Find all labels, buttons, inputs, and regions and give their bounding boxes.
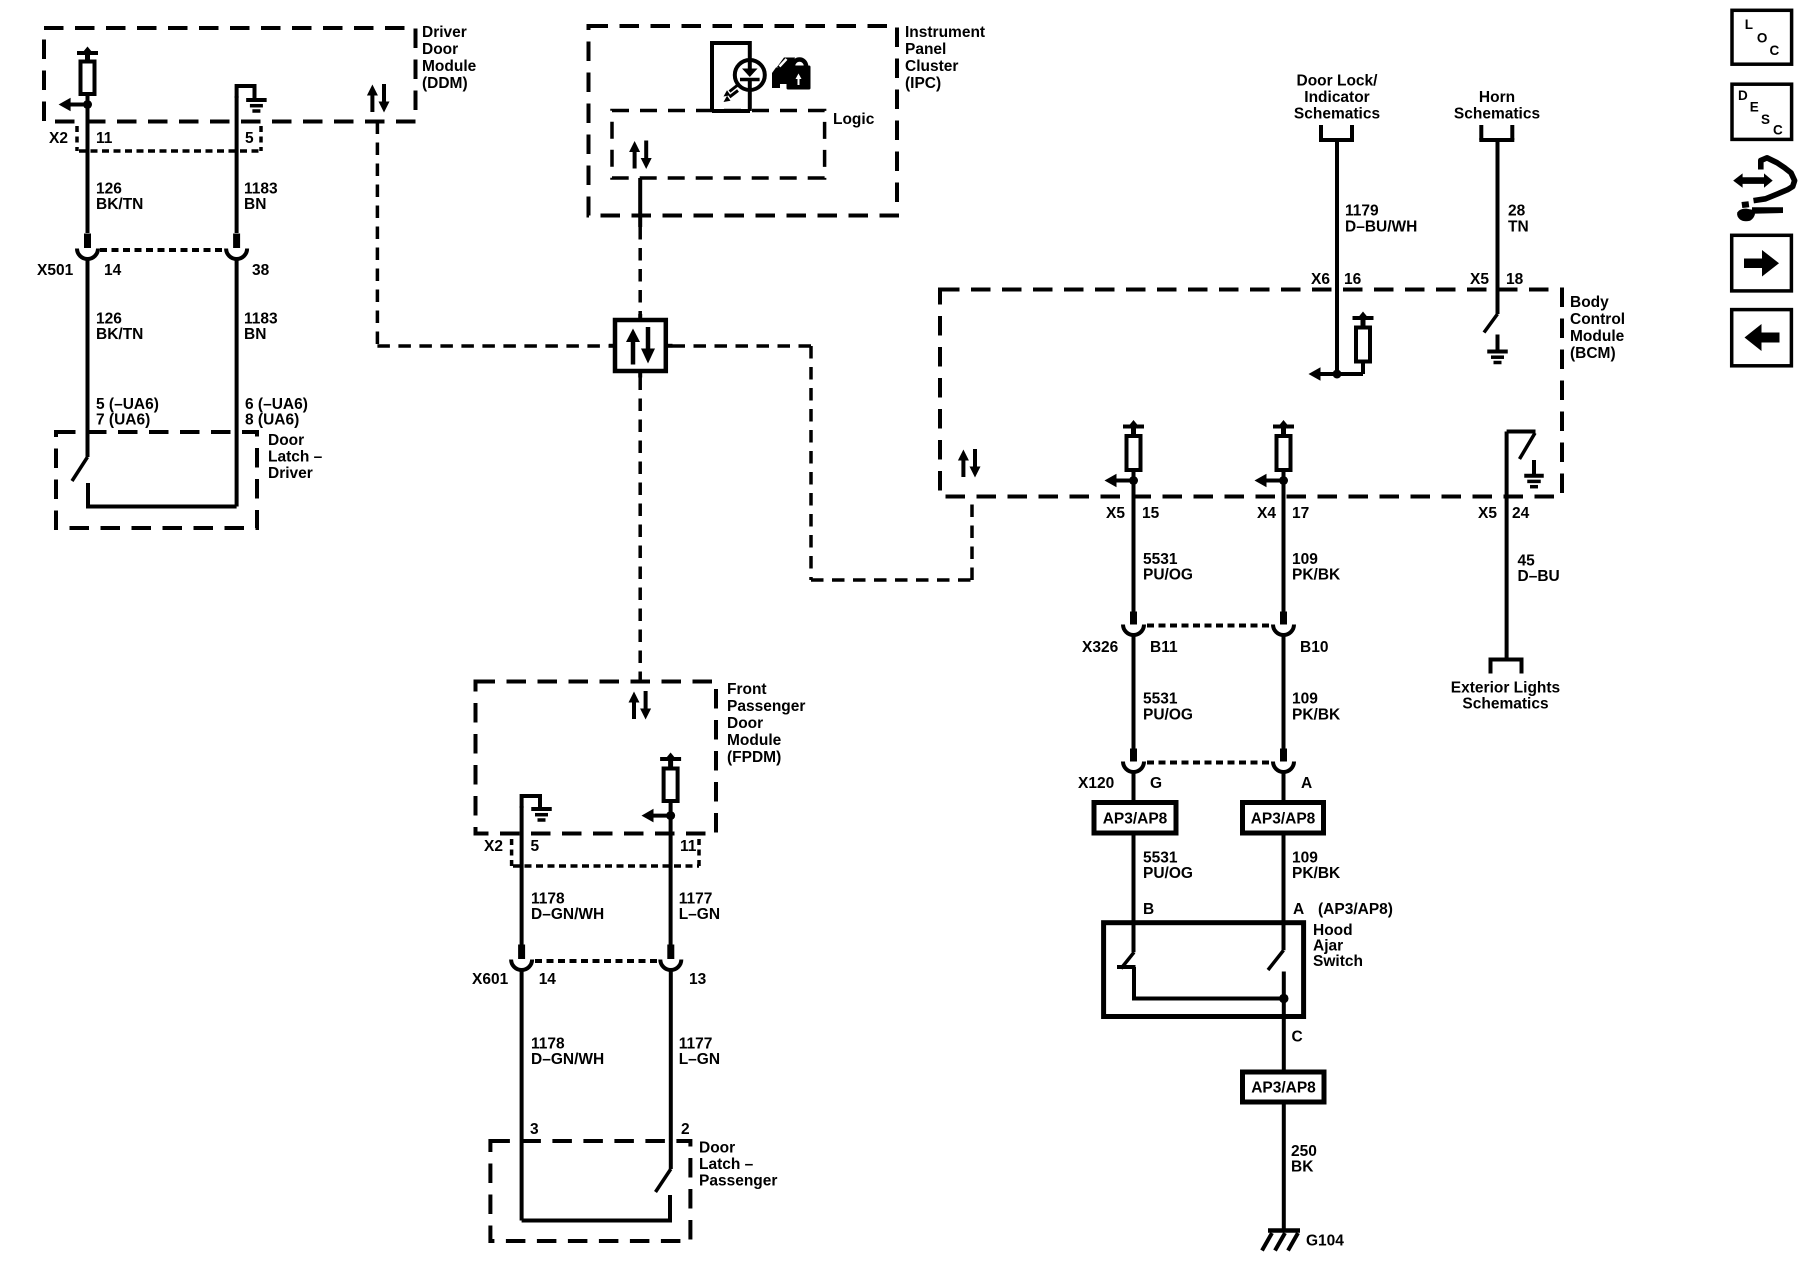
wire label 1178 D-GN/WH (upper)	[531, 891, 604, 924]
sidebar button back arrow	[1732, 310, 1792, 366]
svg-text:B11: B11	[1150, 639, 1178, 656]
component box Door Latch - Passenger	[490, 1140, 777, 1242]
svg-text:Latch –: Latch –	[699, 1156, 754, 1173]
svg-text:X120: X120	[1078, 775, 1114, 792]
wire 1183 BN to door latch driver	[235, 257, 239, 507]
svg-text:Driver: Driver	[268, 465, 313, 482]
pin X5 24 (BCM bottom)	[1478, 505, 1530, 522]
pull-up resistor at BCM X4-17	[1273, 420, 1294, 481]
svg-text:X4: X4	[1257, 505, 1276, 522]
wire label 1177 L-GN (upper)	[679, 891, 720, 924]
wire C from hood switch	[1282, 999, 1286, 1073]
junction on wire 1179	[1333, 370, 1342, 379]
svg-text:109: 109	[1292, 551, 1318, 568]
svg-text:Passenger: Passenger	[727, 698, 805, 715]
svg-text:7 (UA6): 7 (UA6)	[96, 412, 150, 429]
wire label 45 D-BU	[1518, 553, 1560, 586]
fuse label box AP3/AP8 right	[1243, 803, 1324, 834]
wire to fuse label left	[1132, 770, 1136, 803]
wire 126 BK/TN from DDM pin 11	[86, 105, 90, 234]
svg-text:D–GN/WH: D–GN/WH	[531, 1051, 604, 1068]
svg-text:E: E	[1750, 100, 1759, 115]
wire label 1183 BN (lower)	[244, 311, 278, 344]
connector X120 left half G	[1078, 749, 1162, 793]
svg-text:13: 13	[689, 971, 707, 988]
svg-text:16: 16	[1344, 271, 1362, 288]
junction at BCM X5-15	[1129, 476, 1138, 485]
svg-text:Module: Module	[422, 58, 477, 75]
module box IPC (Instrument Panel Cluster)	[589, 24, 986, 216]
svg-text:D–BU/WH: D–BU/WH	[1345, 219, 1417, 236]
pin 2 label (passenger latch)	[681, 1121, 690, 1138]
signal arrow left inside FPDM	[642, 809, 671, 823]
connector X501 left half	[37, 234, 122, 280]
off-page connector Horn Schematics	[1454, 89, 1540, 140]
LED emission arrows	[724, 84, 740, 102]
connector X326 right half B10	[1273, 612, 1328, 657]
wire 1183 BN from DDM pin 5	[235, 96, 239, 233]
component box Door Latch - Driver	[56, 432, 323, 528]
svg-text:BK/TN: BK/TN	[96, 326, 143, 343]
svg-text:1178: 1178	[531, 1036, 565, 1053]
connector X326 dashed pairing line	[1147, 624, 1270, 628]
svg-text:Ajar: Ajar	[1313, 938, 1343, 955]
pin X5 15 (BCM bottom)	[1106, 505, 1160, 522]
LED circle	[735, 60, 765, 90]
hood switch B contact and link	[1117, 967, 1284, 999]
svg-text:S: S	[1761, 112, 1770, 127]
svg-text:5531: 5531	[1143, 850, 1178, 867]
svg-text:X5: X5	[1106, 505, 1125, 522]
connector X501 dashed pairing line	[100, 248, 224, 252]
svg-text:14: 14	[539, 971, 557, 988]
indicator LED loop wire	[712, 43, 750, 111]
pin X5 18 (BCM)	[1470, 271, 1524, 288]
pin 11 label (DDM X2)	[96, 130, 113, 147]
svg-text:X2: X2	[484, 838, 503, 855]
wire label 126 BK/TN (upper)	[96, 181, 143, 214]
svg-text:Horn: Horn	[1479, 89, 1515, 106]
svg-text:1178: 1178	[531, 891, 565, 908]
serial data dashed wire to BCM	[673, 346, 973, 580]
svg-text:PK/BK: PK/BK	[1292, 707, 1341, 724]
svg-text:D–GN/WH: D–GN/WH	[531, 906, 604, 923]
serial data link box with arrows	[609, 314, 673, 378]
svg-text:45: 45	[1518, 553, 1536, 570]
svg-text:X5: X5	[1478, 505, 1497, 522]
module box DDM (Driver Door Module)	[44, 24, 477, 122]
svg-text:Latch –: Latch –	[268, 449, 323, 466]
wire 1177 L-GN from FPDM pin 11	[669, 816, 673, 945]
svg-text:BK/TN: BK/TN	[96, 196, 143, 213]
resistor with B+ supply inside DDM	[77, 47, 98, 105]
svg-text:(IPC): (IPC)	[905, 75, 941, 92]
horn switch inside BCM	[1484, 314, 1498, 333]
resistor with B+ supply inside FPDM	[660, 753, 681, 816]
svg-text:X601: X601	[472, 971, 509, 988]
serial data dashed wire to FPDM	[638, 378, 642, 682]
ground symbol at BCM X5-24 switch	[1524, 460, 1544, 487]
signal arrow left at X4-17	[1255, 474, 1284, 488]
wire 28 TN	[1496, 140, 1500, 314]
wire label 5531 PU/OG (lower)	[1143, 850, 1193, 883]
svg-text:3: 3	[530, 1121, 539, 1138]
svg-text:38: 38	[252, 262, 270, 279]
pin label 5/7 (UA6)	[96, 396, 159, 429]
connector X120 dashed pairing line	[1147, 761, 1270, 765]
svg-text:Door: Door	[699, 1140, 735, 1157]
svg-text:1183: 1183	[244, 311, 278, 328]
svg-text:C: C	[1773, 123, 1783, 138]
pin label 6/8 (UA6)	[245, 396, 308, 429]
svg-text:TN: TN	[1508, 219, 1529, 236]
svg-text:PK/BK: PK/BK	[1292, 567, 1341, 584]
svg-text:8 (UA6): 8 (UA6)	[245, 412, 299, 429]
wire label 250 BK	[1291, 1143, 1317, 1176]
svg-text:126: 126	[96, 181, 122, 198]
svg-text:B10: B10	[1300, 639, 1328, 656]
svg-text:Indicator: Indicator	[1304, 89, 1369, 106]
component box Hood Ajar Switch	[1104, 922, 1363, 1017]
svg-text:PU/OG: PU/OG	[1143, 865, 1193, 882]
wire label 109 PK/BK (upper)	[1292, 551, 1341, 584]
pin 5 label (FPDM X2)	[531, 838, 540, 855]
node junction below DDM resistor	[83, 100, 92, 109]
svg-text:Schematics: Schematics	[1454, 106, 1540, 123]
svg-text:5531: 5531	[1143, 551, 1178, 568]
sidebar button LOC	[1732, 10, 1792, 64]
connector X326 left half B11	[1082, 612, 1178, 657]
wire 1178 D-GN/WH to passenger latch	[520, 968, 524, 1221]
svg-text:Schematics: Schematics	[1462, 696, 1548, 713]
wire label 1179 D-BU/WH	[1345, 203, 1417, 236]
svg-text:L–GN: L–GN	[679, 1051, 720, 1068]
wire 1179 D-BU/WH	[1335, 140, 1339, 374]
sidebar button DESC	[1732, 84, 1792, 139]
svg-text:Instrument: Instrument	[905, 24, 985, 41]
security indicator icon (car with padlock)	[772, 58, 811, 90]
logic sub-box inside IPC	[612, 111, 875, 179]
fuse label box AP3/AP8 left	[1094, 803, 1176, 834]
svg-text:Driver: Driver	[422, 24, 467, 41]
svg-text:Panel: Panel	[905, 41, 946, 58]
svg-text:1177: 1177	[679, 1036, 713, 1053]
svg-text:Hood: Hood	[1313, 922, 1353, 939]
svg-text:Door Lock/: Door Lock/	[1297, 73, 1379, 90]
terminal label C	[1292, 1029, 1303, 1046]
wire label 28 TN	[1508, 203, 1529, 236]
wire label 1183 BN (upper)	[244, 181, 278, 214]
signal arrow left on 1179	[1309, 367, 1338, 381]
wire 126 BK/TN to door latch driver	[86, 257, 90, 457]
svg-text:1177: 1177	[679, 891, 713, 908]
serial data dashed wire IPC to data link box	[638, 227, 642, 314]
junction below FPDM resistor	[666, 811, 675, 820]
svg-text:Logic: Logic	[833, 111, 875, 128]
wire label 5531 PU/OG (middle)	[1143, 691, 1193, 724]
svg-text:Cluster: Cluster	[905, 58, 958, 75]
junction at hood switch C	[1279, 994, 1288, 1003]
serial data arrows inside BCM	[958, 449, 981, 478]
svg-text:D–BU: D–BU	[1518, 568, 1560, 585]
svg-text:11: 11	[680, 838, 697, 855]
svg-text:AP3/AP8: AP3/AP8	[1251, 1080, 1316, 1097]
off-page connector Door Lock/Indicator Schematics	[1294, 73, 1380, 141]
svg-text:250: 250	[1291, 1143, 1317, 1160]
wire 109 PK/BK (middle)	[1282, 633, 1286, 749]
svg-text:Schematics: Schematics	[1294, 106, 1380, 123]
svg-text:Door: Door	[268, 432, 304, 449]
off-page connector Exterior Lights Schematics	[1451, 660, 1560, 713]
svg-text:C: C	[1770, 43, 1780, 58]
svg-text:2: 2	[681, 1121, 690, 1138]
svg-text:5 (–UA6): 5 (–UA6)	[96, 396, 159, 413]
serial data dashed wire DDM branch	[377, 122, 608, 347]
ground symbol inside DDM	[237, 84, 267, 111]
svg-text:18: 18	[1506, 271, 1524, 288]
svg-text:C: C	[1292, 1029, 1303, 1046]
svg-text:X6: X6	[1311, 271, 1330, 288]
connector X601 left half	[472, 945, 556, 989]
wire 5531 PU/OG from X5-15	[1132, 481, 1136, 612]
wire 5531 PU/OG to hood switch B	[1132, 833, 1136, 952]
svg-text:5531: 5531	[1143, 691, 1178, 708]
pull-up resistor at BCM X5-15	[1123, 420, 1144, 481]
svg-text:5: 5	[245, 130, 254, 147]
svg-text:11: 11	[96, 130, 113, 147]
connector X601 dashed pairing line	[535, 959, 658, 963]
module box FPDM (Front Passenger Door Module)	[476, 681, 806, 834]
svg-text:X2: X2	[49, 130, 68, 147]
wire label 5531 PU/OG (upper)	[1143, 551, 1193, 584]
svg-text:14: 14	[104, 262, 122, 279]
svg-text:AP3/AP8: AP3/AP8	[1251, 811, 1316, 828]
svg-text:X5: X5	[1470, 271, 1489, 288]
pin 3 label (passenger latch)	[530, 1121, 539, 1138]
svg-text:(DDM): (DDM)	[422, 75, 468, 92]
svg-text:Module: Module	[1570, 328, 1625, 345]
svg-text:B: B	[1143, 901, 1154, 918]
wire label 1178 D-GN/WH (lower)	[531, 1036, 604, 1069]
svg-text:Switch: Switch	[1313, 953, 1363, 970]
svg-text:126: 126	[96, 311, 122, 328]
wire 45 D-BU from X5-24	[1505, 497, 1509, 659]
svg-text:X501: X501	[37, 262, 74, 279]
svg-text:A: A	[1301, 775, 1312, 792]
svg-text:O: O	[1757, 31, 1768, 46]
svg-text:28: 28	[1508, 203, 1526, 220]
terminal label B	[1143, 901, 1154, 918]
connector X601 right half	[660, 945, 706, 989]
serial data arrows inside FPDM	[629, 691, 652, 720]
svg-text:X326: X326	[1082, 639, 1119, 656]
svg-text:BN: BN	[244, 326, 266, 343]
svg-text:G104: G104	[1306, 1233, 1344, 1250]
sidebar button next arrow	[1732, 235, 1792, 291]
switch contact and link wire in driver door latch	[88, 483, 237, 507]
svg-text:Door: Door	[422, 41, 458, 58]
LED diode symbol	[740, 60, 760, 90]
svg-text:G: G	[1150, 775, 1162, 792]
wire label 1177 L-GN (lower)	[679, 1036, 720, 1069]
sidebar icon wiring pigtail with double arrow	[1733, 158, 1794, 201]
pin 5 label (DDM X2)	[245, 130, 254, 147]
terminal label A (AP3/AP8)	[1293, 901, 1393, 918]
svg-text:L–GN: L–GN	[679, 906, 720, 923]
module box BCM (Body Control Module)	[940, 290, 1625, 497]
svg-text:Control: Control	[1570, 311, 1625, 328]
ground symbol inside FPDM	[522, 794, 552, 820]
signal arrow left inside DDM	[59, 98, 88, 112]
svg-text:Module: Module	[727, 732, 782, 749]
connector X501 right half	[226, 234, 270, 280]
svg-text:BN: BN	[244, 196, 266, 213]
svg-text:(BCM): (BCM)	[1570, 345, 1616, 362]
svg-text:Door: Door	[727, 715, 763, 732]
wire label 109 PK/BK (lower)	[1292, 850, 1341, 883]
svg-text:BK: BK	[1291, 1159, 1314, 1176]
svg-text:(AP3/AP8): (AP3/AP8)	[1318, 901, 1393, 918]
wire 5531 PU/OG (middle)	[1132, 633, 1136, 749]
pull-up resistor on 1179 inside BCM	[1337, 312, 1374, 375]
svg-text:PK/BK: PK/BK	[1292, 865, 1341, 882]
sidebar icon wrench	[1737, 201, 1783, 221]
serial data arrows inside DDM	[367, 84, 390, 113]
svg-text:Exterior Lights: Exterior Lights	[1451, 680, 1560, 697]
svg-text:109: 109	[1292, 850, 1318, 867]
wire 1177 L-GN to passenger latch	[669, 968, 673, 1169]
hood switch blade B	[1121, 952, 1134, 968]
wire from logic box to IPC edge	[638, 178, 642, 227]
wire to fuse label right	[1282, 770, 1286, 803]
svg-text:24: 24	[1512, 505, 1530, 522]
svg-text:Body: Body	[1570, 294, 1609, 311]
svg-text:109: 109	[1292, 691, 1318, 708]
pin X6 16 (BCM)	[1311, 271, 1362, 288]
svg-text:1183: 1183	[244, 181, 278, 198]
connector X2 (DDM)	[49, 126, 261, 151]
svg-text:Passenger: Passenger	[699, 1173, 777, 1190]
svg-text:L: L	[1745, 17, 1753, 32]
hood switch blade A	[1268, 950, 1284, 970]
ground symbol below horn switch	[1487, 335, 1508, 363]
switch to ground at BCM X5-24	[1507, 432, 1536, 497]
wire label 109 PK/BK (middle)	[1292, 691, 1341, 724]
svg-text:(FPDM): (FPDM)	[727, 749, 781, 766]
chassis ground G104	[1262, 1231, 1344, 1251]
connector X120 right half A	[1273, 749, 1312, 793]
wire 109 PK/BK from X4-17	[1282, 481, 1286, 612]
svg-text:Front: Front	[727, 681, 767, 698]
wire 109 PK/BK to hood switch A	[1282, 833, 1286, 950]
wire 250 BK	[1282, 1102, 1286, 1230]
junction at BCM X4-17	[1279, 476, 1288, 485]
pin X4 17 (BCM bottom)	[1257, 505, 1309, 522]
switch contact and link wire in passenger door latch	[522, 1195, 670, 1221]
wire label 126 BK/TN (lower)	[96, 311, 143, 344]
connector X2 (FPDM)	[484, 838, 699, 866]
hood switch A contact	[1282, 972, 1286, 999]
serial data arrows inside logic box	[629, 141, 652, 170]
svg-text:PU/OG: PU/OG	[1143, 707, 1193, 724]
pin 11 label (FPDM X2)	[680, 838, 697, 855]
svg-text:PU/OG: PU/OG	[1143, 567, 1193, 584]
fuse label box AP3/AP8 lower	[1243, 1072, 1325, 1102]
svg-text:D: D	[1738, 88, 1748, 103]
svg-text:15: 15	[1142, 505, 1160, 522]
svg-text:6 (–UA6): 6 (–UA6)	[245, 396, 308, 413]
switch blade in passenger door latch	[656, 1169, 671, 1192]
signal arrow left at X5-15	[1105, 474, 1134, 488]
svg-text:17: 17	[1292, 505, 1309, 522]
wire 1178 D-GN/WH from FPDM pin 5	[520, 806, 524, 945]
svg-text:AP3/AP8: AP3/AP8	[1103, 811, 1168, 828]
svg-text:1179: 1179	[1345, 203, 1379, 220]
svg-text:A: A	[1293, 901, 1304, 918]
switch blade in driver door latch	[72, 457, 88, 481]
svg-text:5: 5	[531, 838, 540, 855]
